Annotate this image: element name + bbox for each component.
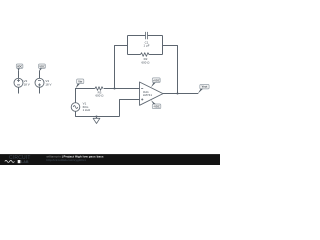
- net flag Vout: [198, 85, 209, 94]
- wire loop right edge: [162, 36, 164, 55]
- label V2 value: [24, 79, 30, 86]
- svg-text:Vin: Vin: [78, 79, 82, 83]
- net flag Vin: [76, 79, 84, 88]
- label OA1: [143, 90, 152, 97]
- svg-text:Vout: Vout: [202, 85, 208, 89]
- wire V1 to R3: [76, 88, 95, 90]
- svg-text:VDC: VDC: [17, 64, 23, 68]
- wire V3 top: [39, 70, 41, 78]
- svg-text:-VDC: -VDC: [153, 105, 159, 109]
- footer logo wave: [5, 160, 15, 162]
- label C1 value: [143, 40, 149, 47]
- capacitor C1: [146, 32, 148, 39]
- svg-text:600 Ω: 600 Ω: [95, 93, 104, 97]
- junction feedback-left: [114, 88, 116, 90]
- svg-text:http://circuitlab.com/cygb0rcz: http://circuitlab.com/cygb0rcz: [46, 158, 86, 162]
- wire R3 to op-amp minus input: [104, 88, 140, 90]
- svg-text:+VDC: +VDC: [153, 78, 160, 82]
- net flag VCC on V2: [16, 64, 23, 71]
- svg-text:LM741: LM741: [143, 93, 152, 97]
- svg-text:18 V: 18 V: [45, 82, 51, 86]
- ground: [93, 117, 100, 124]
- wire V2 top: [18, 70, 20, 78]
- net flag VEE on op-amp bottom: [151, 100, 161, 109]
- svg-text:18 V: 18 V: [24, 82, 30, 86]
- junction ground: [96, 116, 98, 118]
- op-amp OA1: [140, 82, 164, 105]
- ac source V1: [71, 103, 80, 112]
- wire R2 branch left: [128, 54, 141, 56]
- label V1 value: [83, 102, 91, 113]
- label V3 value: [45, 79, 51, 86]
- wire feedback left vertical: [115, 46, 128, 89]
- wire op-amp output: [163, 93, 198, 95]
- voltage source V2: [14, 78, 23, 87]
- wire R2 branch right: [150, 54, 163, 56]
- svg-text:1 kHz: 1 kHz: [83, 108, 91, 112]
- svg-text:VDC: VDC: [39, 64, 45, 68]
- footer bar: [0, 154, 220, 165]
- svg-text:LAB: LAB: [21, 160, 29, 164]
- wire cap branch left: [128, 35, 146, 37]
- junction output-feedback: [177, 93, 179, 95]
- resistor R3: [95, 87, 104, 91]
- label R2 value: [141, 57, 150, 64]
- wire V1 top: [75, 88, 77, 103]
- label R3 value: [95, 91, 104, 98]
- wire cap branch right: [148, 35, 163, 37]
- footer logo block: [18, 160, 21, 163]
- wire V3 bottom: [39, 87, 41, 93]
- svg-text:1 µF: 1 µF: [143, 44, 149, 48]
- net flag VCC on op-amp top: [151, 78, 160, 87]
- net flag VEE on V3: [39, 64, 46, 71]
- svg-text:600 Ω: 600 Ω: [141, 60, 150, 64]
- voltage source V3: [35, 78, 44, 87]
- wire loop left edge: [127, 36, 129, 55]
- wire feedback right: [163, 46, 178, 94]
- wire V1 bottom: [76, 111, 120, 116]
- wire V2 bottom: [18, 87, 20, 93]
- wire to op-amp plus input: [120, 100, 140, 117]
- resistor R2: [140, 53, 150, 57]
